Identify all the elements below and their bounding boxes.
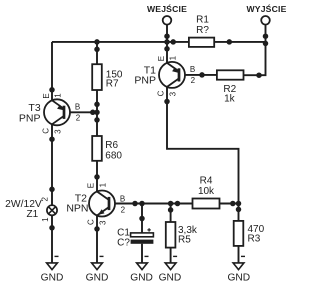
junction dots R7 top	[94, 39, 100, 45]
wire R4 bus left segment from T2 base	[114, 203, 193, 205]
junction dot T2 collector	[94, 226, 100, 232]
ground under R5	[159, 256, 182, 283]
svg-text:GND: GND	[130, 272, 153, 283]
svg-text:WYJŚCIE: WYJŚCIE	[246, 3, 286, 14]
svg-text:C: C	[42, 128, 51, 134]
ground under R3	[227, 256, 250, 283]
junction dots lamp Z1	[49, 187, 55, 193]
junction dot T1 base	[199, 72, 205, 78]
junction dot T2 emitter	[94, 174, 100, 180]
svg-text:E: E	[87, 183, 96, 188]
terminal WYJSCIE	[246, 3, 286, 24]
svg-text:R6: R6	[105, 140, 118, 151]
svg-text:3: 3	[99, 220, 108, 225]
resistor R4	[193, 176, 220, 209]
transistor T3 (PNP)	[19, 93, 81, 134]
wire R7 bottom to R6 top	[96, 90, 98, 136]
wire lamp Z1 to GND	[51, 216, 53, 263]
wire T1 collector jog to right column	[167, 86, 239, 221]
svg-text:B: B	[75, 102, 80, 111]
capacitor C1	[117, 228, 153, 249]
svg-text:R7: R7	[106, 79, 119, 90]
svg-text:2: 2	[121, 206, 126, 215]
svg-text:1: 1	[99, 182, 108, 187]
svg-text:C: C	[87, 219, 96, 225]
junction dot R2 right corner	[256, 72, 262, 78]
svg-text:B: B	[120, 194, 125, 203]
wire top bus from R1 to output column	[214, 41, 265, 43]
wire R4 right to right column	[220, 203, 239, 205]
svg-text:2: 2	[41, 197, 50, 202]
wire R5 branch from bus	[170, 204, 172, 223]
junction dot T3 emitter	[49, 87, 55, 93]
wire capacitor C1 branch from bus	[141, 204, 143, 233]
wire capacitor C1 to GND	[141, 244, 143, 263]
wire WYJSCIE column down to R2	[244, 24, 266, 75]
wire R5 to GND	[170, 248, 172, 263]
svg-text:2: 2	[76, 113, 81, 122]
svg-text:PNP: PNP	[19, 113, 41, 125]
svg-text:C: C	[157, 90, 166, 96]
svg-text:2: 2	[191, 76, 196, 85]
junction dot T1 collector	[164, 99, 170, 105]
svg-text:R3: R3	[248, 233, 261, 244]
terminal WEJSCIE	[147, 3, 187, 24]
resistor R3	[234, 221, 265, 246]
junction dots input column	[164, 33, 170, 39]
svg-text:R1: R1	[196, 14, 209, 25]
resistor R2	[217, 70, 244, 104]
wire left column bus corner to T3 emitter	[51, 42, 53, 101]
svg-text:1k: 1k	[224, 94, 236, 105]
wire R7 column from bus	[96, 42, 98, 64]
svg-text:1: 1	[41, 217, 50, 222]
svg-text:10k: 10k	[198, 186, 215, 197]
wire T3 base to R7/R6 column	[64, 111, 97, 113]
junction dot right of R1	[227, 39, 233, 45]
svg-text:3: 3	[169, 91, 178, 96]
junction dots T3 base node	[94, 102, 100, 108]
svg-text:1: 1	[54, 93, 63, 98]
wire T2 collector to GND	[96, 215, 98, 263]
ground under lamp Z1	[41, 256, 64, 283]
svg-text:GND: GND	[159, 272, 182, 283]
junction dots output column	[263, 33, 269, 39]
svg-text:R5: R5	[178, 234, 191, 245]
ground under C1	[130, 256, 153, 283]
resistor R7	[92, 64, 123, 90]
svg-text:B: B	[190, 65, 195, 74]
svg-text:GND: GND	[41, 272, 64, 283]
resistor R5	[166, 222, 198, 248]
svg-text:PNP: PNP	[134, 75, 156, 87]
wire R3 to GND	[238, 246, 240, 263]
svg-text:E: E	[42, 93, 51, 98]
svg-text:WEJŚCIE: WEJŚCIE	[147, 3, 187, 14]
wire T1 base to R2	[179, 74, 217, 76]
svg-text:R?: R?	[196, 25, 209, 36]
svg-text:R4: R4	[200, 176, 213, 187]
svg-text:Z1: Z1	[27, 209, 39, 220]
svg-text:3: 3	[54, 129, 63, 134]
transistor T2 (NPN)	[66, 182, 125, 225]
svg-text:E: E	[157, 56, 166, 61]
wire T3 collector down to lamp Z1	[51, 124, 53, 205]
wire R6 bottom to T2 emitter	[96, 161, 98, 192]
svg-text:1: 1	[169, 55, 178, 60]
wire WEJSCIE terminal to T1 emitter	[166, 24, 168, 65]
resistor R1	[189, 14, 214, 47]
svg-text:NPN: NPN	[66, 202, 88, 214]
svg-text:GND: GND	[86, 272, 109, 283]
svg-text:GND: GND	[227, 272, 250, 283]
wire top supply bus left segment	[52, 41, 189, 43]
junction dot T3 collector	[49, 136, 55, 142]
svg-text:C?: C?	[117, 237, 130, 248]
lamp Z1	[5, 197, 57, 222]
resistor R6	[92, 136, 122, 162]
junction dots R4 bus	[132, 201, 138, 207]
transistor T1 (PNP)	[134, 55, 195, 96]
ground under T2	[86, 256, 109, 283]
svg-text:680: 680	[105, 151, 122, 162]
